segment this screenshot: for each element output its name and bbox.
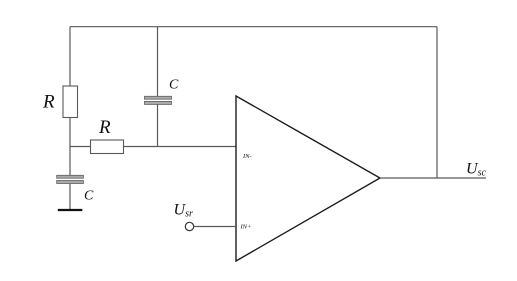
svg-text:R: R [98, 117, 111, 138]
svg-text:IN+: IN+ [240, 224, 252, 231]
svg-text:C: C [169, 78, 179, 93]
svg-text:Usc: Usc [466, 161, 486, 179]
svg-text:IN-: IN- [242, 153, 252, 160]
svg-text:Usr: Usr [174, 202, 193, 220]
svg-text:R: R [42, 92, 55, 113]
svg-text:C: C [84, 189, 94, 204]
